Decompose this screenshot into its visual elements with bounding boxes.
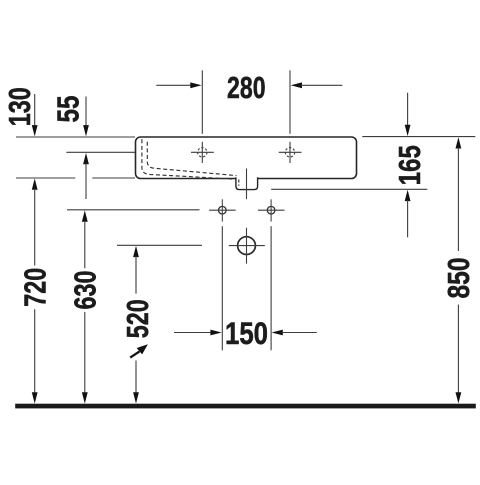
- svg-text:150: 150: [225, 315, 268, 351]
- svg-text:130: 130: [3, 87, 37, 126]
- svg-text:55: 55: [52, 95, 86, 122]
- svg-text:165: 165: [393, 145, 427, 185]
- svg-text:630: 630: [69, 271, 103, 310]
- svg-text:520: 520: [121, 299, 155, 338]
- svg-text:850: 850: [442, 258, 476, 299]
- svg-text:720: 720: [19, 268, 53, 307]
- svg-text:280: 280: [227, 71, 266, 105]
